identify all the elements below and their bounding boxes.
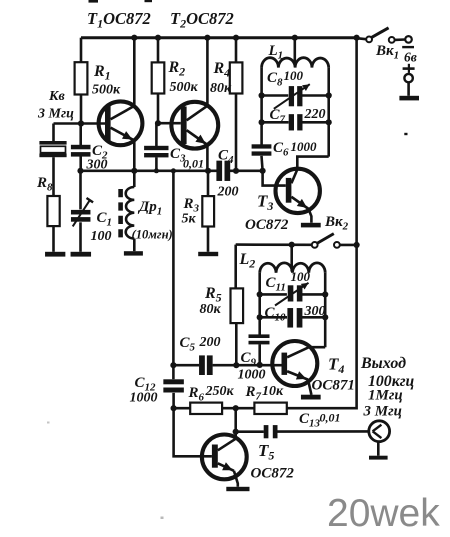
ground under T4 emitter xyxy=(301,395,321,400)
transistor T2 xyxy=(171,102,218,149)
svg-text:10к: 10к xyxy=(262,384,284,399)
wire: T5 emitter to ground xyxy=(234,471,238,487)
switch Vk2 wire xyxy=(236,243,312,246)
ground under C1 xyxy=(71,252,92,257)
node: rail / C5 / C12 junction xyxy=(170,362,176,368)
output jack xyxy=(369,421,390,442)
capacitor C10 row xyxy=(260,316,287,319)
svg-text:220: 220 xyxy=(304,107,326,122)
tank L1 right edge xyxy=(327,68,330,157)
tank L2 top wire / R5 branch xyxy=(234,245,237,289)
capacitor C2 xyxy=(71,145,91,150)
capacitor C3 xyxy=(155,123,158,146)
wire: T2 base wire xyxy=(158,122,181,125)
wire: +6V top bus xyxy=(81,36,357,39)
svg-text:(10мгн): (10мгн) xyxy=(132,228,173,242)
wire: T1 emitter down xyxy=(133,141,136,171)
svg-text:ОС872: ОС872 xyxy=(245,217,289,233)
wire: right rail from bus to R7 row xyxy=(287,38,357,409)
wire: emitter rail y=171 xyxy=(81,170,217,173)
svg-text:ОС872: ОС872 xyxy=(251,466,295,482)
wire: T1 base wire xyxy=(54,122,106,125)
wire: T3 emitter to ground xyxy=(309,209,312,223)
top text fragment (cut-off caption) xyxy=(89,0,99,3)
svg-text:0,01: 0,01 xyxy=(320,411,341,425)
svg-text:1000: 1000 xyxy=(238,368,266,383)
ground under R3 xyxy=(198,252,218,256)
T3 emitter with arrow xyxy=(291,197,308,209)
resistor R2 xyxy=(155,35,161,41)
capacitor C9 xyxy=(249,334,270,338)
inductor L2 coil xyxy=(260,263,326,273)
node: T2 emitter / R3 xyxy=(205,168,211,174)
svg-text:3 Мгц: 3 Мгц xyxy=(37,107,74,122)
capacitor C5 xyxy=(173,364,199,367)
capacitor C6 xyxy=(252,144,272,148)
transistor T3 xyxy=(276,169,320,213)
T4 emitter with arrow xyxy=(287,371,308,379)
capacitor C12 xyxy=(172,365,175,379)
svg-text:250к: 250к xyxy=(205,384,235,399)
node: emitter rail / bottom rail xyxy=(171,168,176,173)
capacitor C8 (trimmer) row xyxy=(262,94,289,97)
node: Vk2 / right rail xyxy=(354,242,360,248)
wire: T4 base wire xyxy=(213,364,282,367)
svg-text:80к: 80к xyxy=(200,302,222,317)
svg-text:Т2ОС872: Т2ОС872 xyxy=(170,9,234,31)
ground under output jack xyxy=(369,456,388,460)
wire: T2 collector to bus xyxy=(206,38,209,106)
wire: tank L1 bottom to T3 collector xyxy=(297,157,328,169)
switch Vk2 contacts xyxy=(312,242,318,248)
node: C13 junction xyxy=(233,429,239,435)
node: C12 / R6 xyxy=(171,405,177,411)
capacitor C7 row xyxy=(262,121,289,124)
ground under battery xyxy=(399,96,419,101)
resistor R3 xyxy=(207,171,210,196)
capacitor C13 xyxy=(236,430,264,433)
svg-text:100: 100 xyxy=(91,229,112,244)
svg-text:1000: 1000 xyxy=(291,139,318,154)
resistor R7 xyxy=(254,403,286,414)
resistor R8 xyxy=(47,196,59,226)
node: L2 feed xyxy=(289,242,295,248)
tank L2 feed xyxy=(290,245,293,272)
capacitor C11 (trimmer) row xyxy=(260,293,287,296)
wire: T4 emitter to ground xyxy=(308,380,311,395)
wire: C4 right to C6/T3 base xyxy=(230,170,263,173)
svg-text:80к: 80к xyxy=(210,81,232,96)
capacitor C4 xyxy=(216,161,222,181)
quartz crystal Kv 3MHz xyxy=(52,124,55,142)
svg-text:200: 200 xyxy=(217,185,239,200)
resistor R4 xyxy=(233,35,239,41)
svg-text:20wek: 20wek xyxy=(327,492,440,535)
ground under R8 xyxy=(45,252,65,257)
switch Vk1 xyxy=(357,38,367,39)
svg-text:500к: 500к xyxy=(170,80,199,95)
node: T1 emitter / choke junction xyxy=(131,168,137,174)
tank L1 left edge xyxy=(260,68,263,145)
wire: T5 base from rail xyxy=(174,408,212,456)
wire: T2 emitter down xyxy=(206,145,209,171)
node: R6-R7 / T5 collector xyxy=(233,405,239,411)
node: C6 bottom junction xyxy=(260,168,266,174)
ground under T5 emitter xyxy=(226,487,249,491)
scan specks xyxy=(404,133,407,135)
svg-text:ОС871: ОС871 xyxy=(312,378,355,394)
ground under Dr1 xyxy=(124,251,143,255)
wire: tank L2 bottom to T4 collector xyxy=(308,346,325,349)
svg-text:6в: 6в xyxy=(404,50,417,65)
wire: down to T3 base xyxy=(263,171,286,186)
node: R2 / T2 base xyxy=(155,120,161,126)
tank L2 right edge xyxy=(324,273,327,347)
tank L1 feed from bus xyxy=(292,35,298,41)
inductor L1 coil xyxy=(262,58,329,68)
resistor R6 xyxy=(174,407,191,410)
T5 emitter with arrow xyxy=(218,463,234,471)
node: R5 bottom xyxy=(233,362,239,368)
T1 emitter with arrow xyxy=(111,128,135,141)
resistor R5 xyxy=(231,288,244,323)
choke Dr1 dashed core xyxy=(118,189,123,238)
svg-text:Кв: Кв xyxy=(48,89,65,104)
ground under T3 emitter xyxy=(301,223,321,228)
node: R4 / wire xyxy=(233,168,239,174)
transistor T4 xyxy=(272,341,317,386)
wire: rail mid-section xyxy=(172,171,175,365)
svg-text:100: 100 xyxy=(291,269,311,284)
choke Dr1 coil xyxy=(126,187,135,239)
resistor R1 xyxy=(80,38,83,63)
battery 6V plates xyxy=(402,46,414,48)
svg-text:500к: 500к xyxy=(92,83,121,98)
svg-text:Т1ОС872: Т1ОС872 xyxy=(87,9,151,31)
svg-text:3 Мгц: 3 Мгц xyxy=(363,404,402,420)
svg-text:0,01: 0,01 xyxy=(183,157,204,171)
node: C9 bottom xyxy=(257,362,263,368)
node: R1/T1 base junction xyxy=(78,120,84,126)
node: C3 / emitter rail xyxy=(154,168,159,173)
choke Dr1 (10mH) xyxy=(133,171,136,187)
wire: T1 collector to bus xyxy=(133,38,136,106)
tank L2 left edge xyxy=(258,273,261,335)
node: C2 bottom / emitter rail xyxy=(77,168,83,174)
transistor T5 xyxy=(202,435,247,480)
svg-text:Выход: Выход xyxy=(360,355,406,372)
svg-text:1000: 1000 xyxy=(130,391,158,406)
wire: T5 collector branch xyxy=(234,408,237,439)
svg-text:200: 200 xyxy=(199,335,221,350)
svg-text:1Мгц: 1Мгц xyxy=(368,388,403,404)
svg-text:5к: 5к xyxy=(182,212,197,227)
T2 emitter with arrow xyxy=(187,130,208,145)
battery 6V connector xyxy=(405,36,412,43)
wire: C13 to output xyxy=(278,430,369,433)
capacitor C1 (trimmer) xyxy=(79,171,82,210)
svg-text:100: 100 xyxy=(284,68,304,83)
transistor T1 xyxy=(99,101,143,145)
